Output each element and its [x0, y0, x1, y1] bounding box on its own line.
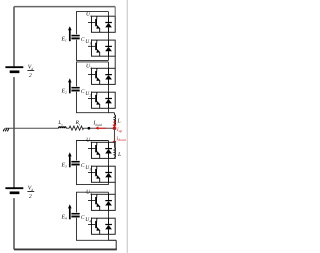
svg-text:L: L: [116, 119, 121, 125]
svg-text:C: C: [81, 215, 85, 221]
svg-text:C: C: [81, 37, 85, 43]
svg-text:C: C: [81, 89, 85, 95]
svg-text:C: C: [81, 163, 85, 169]
svg-text:2: 2: [29, 194, 32, 200]
svg-text:L: L: [117, 152, 122, 158]
svg-text:2: 2: [29, 73, 32, 79]
